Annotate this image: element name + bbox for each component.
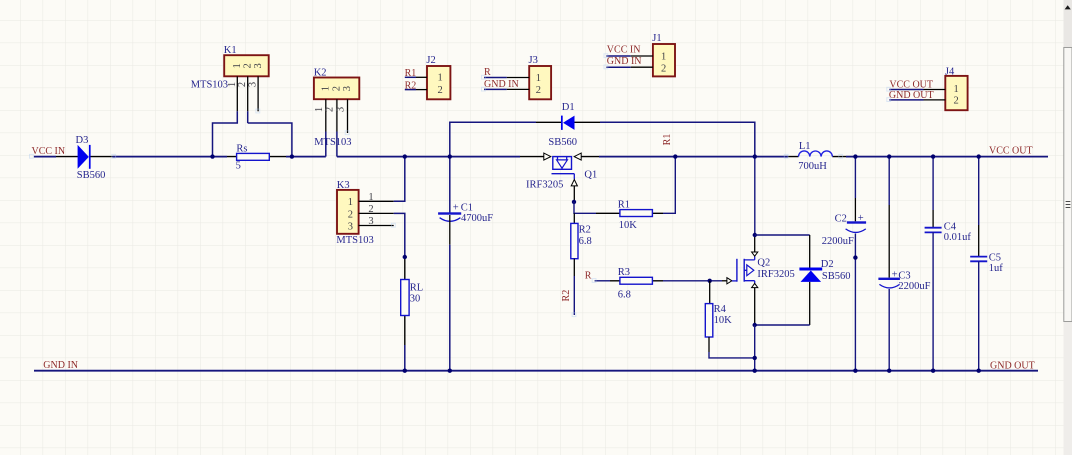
svg-text:1: 1: [348, 197, 353, 208]
svg-text:4700uF: 4700uF: [461, 213, 493, 224]
wire net VCC OUT stub (J4.1): [889, 89, 923, 91]
net label GND OUT (J4): [889, 90, 934, 101]
label C4: [944, 221, 957, 232]
J4 pin names: [954, 84, 959, 107]
svg-text:GND OUT: GND OUT: [889, 90, 934, 101]
label L1: [799, 141, 811, 152]
svg-text:R1: R1: [405, 68, 417, 79]
svg-text:C4: C4: [944, 221, 957, 232]
wire RL to GND rail: [404, 345, 406, 371]
svg-text:GND OUT: GND OUT: [990, 360, 1035, 371]
wire main VCC rail D3 to Rs: [113, 156, 228, 158]
K3 pin numbers: [368, 192, 373, 227]
svg-text:+: +: [453, 202, 459, 213]
J1 pin 1: [631, 55, 653, 57]
junction GND rail x889.2: [887, 369, 891, 373]
net label R (R3 input): [585, 270, 592, 281]
svg-text:10K: 10K: [619, 220, 638, 231]
svg-text:R4: R4: [714, 304, 727, 315]
svg-text:1: 1: [536, 73, 541, 84]
svg-text:1: 1: [227, 82, 238, 87]
value 1uf (C5): [989, 263, 1004, 274]
wire net R2 stub: [573, 276, 575, 315]
value 10K (R4): [714, 315, 733, 326]
junction GND rail x855.4: [853, 369, 857, 373]
transistor Q2 gate pin: [722, 278, 732, 284]
svg-text:VCC IN: VCC IN: [32, 146, 66, 157]
label R4: [714, 304, 727, 315]
wire K1 pin2 to Rs right: [248, 111, 292, 156]
capacitor C1 top pin: [449, 157, 451, 213]
junction VCC rail x889.2: [887, 154, 891, 158]
transistor Q1 source pin: [574, 153, 599, 160]
wire K2 pin2 down to rail: [336, 132, 338, 157]
wire Q2 source to GND rail: [754, 325, 756, 371]
label K2: [314, 68, 327, 79]
svg-text:1: 1: [368, 192, 373, 203]
label +C1: [453, 202, 473, 213]
label J4: [945, 67, 955, 78]
label R2: [579, 225, 591, 236]
svg-text:J4: J4: [945, 67, 955, 78]
value 5 (Rs): [236, 161, 241, 172]
svg-text:K1: K1: [224, 45, 237, 56]
value MTS103 (K1): [191, 79, 228, 90]
K1 pin numbers (rotated): [227, 82, 259, 87]
net label GND IN (J1): [607, 56, 642, 67]
svg-text:VCC OUT: VCC OUT: [989, 145, 1033, 156]
svg-text:K3: K3: [337, 180, 350, 191]
resistor R4: [705, 304, 713, 337]
transistor Q1 drain pin: [520, 153, 551, 160]
J1 pin 2: [631, 66, 653, 68]
junction VCC rail x978.7: [977, 154, 981, 158]
label D3: [76, 135, 89, 146]
svg-text:J1: J1: [652, 33, 661, 44]
diode D3: [78, 145, 91, 169]
diode D1 pins: [536, 121, 600, 123]
diode D2 (pointing up, cathode top): [799, 268, 822, 282]
value 0.01uf (C4): [944, 232, 972, 243]
svg-text:1uf: 1uf: [989, 263, 1004, 274]
J3 pin 2: [507, 88, 530, 90]
capacitor C4 top pin: [932, 157, 934, 228]
wire R4 to Q2 source column: [709, 352, 755, 358]
value 6.8 (R3): [618, 290, 631, 301]
net label VCC IN: [32, 146, 66, 157]
junction VCC rail x212.5: [210, 154, 214, 158]
value SB560 (D3): [77, 170, 106, 181]
svg-text:10K: 10K: [714, 315, 733, 326]
svg-text:Q1: Q1: [584, 170, 597, 181]
junction C2 bottom: [853, 255, 857, 259]
junction GND rail x404.8: [403, 369, 407, 373]
J2 pin 1: [416, 76, 427, 78]
svg-text:K2: K2: [314, 68, 327, 79]
svg-text:2: 2: [438, 85, 443, 96]
connector J2 body: [427, 66, 450, 99]
svg-text:R1: R1: [662, 134, 673, 146]
value 10K (R1): [619, 220, 638, 231]
junction GND rail x449.8: [448, 369, 452, 373]
svg-text:R1: R1: [618, 199, 630, 210]
wire net VCC IN stub (J1.1): [606, 55, 630, 57]
wire net R2 stub (J2.2): [405, 89, 416, 91]
wire net R1 stub (J2.1): [405, 76, 416, 78]
label C2 +: [835, 213, 864, 224]
wire Q1 gate to R1/R2: [574, 202, 596, 213]
scrollbar up arrow: [1065, 5, 1071, 9]
svg-text:3: 3: [253, 63, 264, 68]
svg-text:2: 2: [243, 63, 254, 68]
svg-text:2: 2: [331, 86, 342, 91]
wire Q1 to L1 segment: [599, 156, 788, 158]
wire C3 to GND rail: [888, 289, 890, 371]
label K3: [337, 180, 350, 191]
inductor L1: [799, 151, 833, 157]
value 700uH (L1): [798, 161, 827, 172]
connector J3 body: [529, 66, 551, 99]
svg-text:RL: RL: [410, 283, 423, 294]
wire net R stub to R3: [595, 280, 610, 282]
label Q1: [584, 170, 597, 181]
J2 pin 2: [416, 89, 427, 91]
label D1: [562, 102, 575, 113]
diode D1 (pointing left): [561, 116, 575, 130]
junction RL top: [403, 255, 407, 259]
K2 pin 2: [336, 99, 338, 131]
resistor R2 bottom pin: [573, 259, 575, 276]
net label R (J3): [484, 67, 491, 78]
label R3: [618, 267, 630, 278]
svg-text:R2: R2: [561, 290, 572, 302]
wire D1 bypass riser right: [600, 122, 755, 156]
resistor R4 top pin: [709, 281, 711, 304]
svg-text:IRF3205: IRF3205: [757, 269, 794, 280]
J3 pin 1: [507, 77, 530, 79]
svg-text:+: +: [892, 269, 898, 280]
capacitor C1: [438, 212, 461, 221]
switch K3 body: [337, 190, 359, 234]
svg-text:C2: C2: [835, 214, 847, 225]
transistor Q2 body: [732, 256, 755, 283]
svg-text:3: 3: [348, 221, 353, 232]
wire Rs to K2: [286, 156, 326, 158]
K1 pin 3: [257, 76, 259, 111]
svg-text:1: 1: [954, 84, 959, 95]
svg-text:MTS103: MTS103: [191, 79, 228, 90]
junction VCC rail x404.8: [403, 154, 407, 158]
svg-text:MTS103: MTS103: [314, 137, 351, 148]
junction VCC rail x291.9: [290, 154, 294, 158]
resistor RL pins: [404, 257, 406, 345]
svg-text:GND IN: GND IN: [43, 360, 78, 371]
value 30 (RL): [410, 293, 421, 304]
label C5: [989, 252, 1001, 263]
K1 pin 1: [236, 76, 238, 111]
svg-text:SB560: SB560: [822, 271, 851, 282]
svg-text:GND IN: GND IN: [607, 56, 642, 67]
wire Q2 drain from VCC rail: [754, 157, 756, 235]
svg-text:1: 1: [438, 73, 443, 84]
capacitor C3: [878, 278, 900, 288]
relay K1 body: [224, 55, 269, 76]
svg-text:2: 2: [237, 82, 248, 87]
K3 pin 2: [359, 212, 394, 214]
wire end markers (editor hotspots): [30, 54, 891, 317]
value IRF3205 (Q2): [757, 269, 794, 280]
label Q2: [757, 258, 770, 269]
svg-text:MTS103: MTS103: [336, 235, 373, 246]
resistor R1 pins: [596, 212, 663, 214]
value SB560 (D2): [822, 271, 851, 282]
svg-text:L1: L1: [799, 141, 811, 152]
svg-text:2: 2: [368, 204, 373, 215]
svg-text:SB560: SB560: [548, 137, 577, 148]
wire D2 top branch: [755, 234, 810, 236]
resistor R1: [620, 210, 653, 217]
junction Q2 drain / D2: [753, 233, 757, 237]
svg-text:VCC OUT: VCC OUT: [889, 79, 933, 90]
label RL: [410, 283, 423, 294]
J3 pin names: [536, 73, 541, 96]
net label VCC OUT (J4): [889, 79, 933, 90]
wire C4 to GND rail: [932, 232, 934, 370]
wire D1 bypass riser left: [450, 122, 536, 156]
label K1: [224, 45, 237, 56]
wire C2 to GND rail: [854, 234, 856, 371]
label R1: [618, 199, 630, 210]
junction VCC rail x449.8: [448, 154, 452, 158]
junction GND rail x933.1: [931, 369, 935, 373]
svg-text:1: 1: [314, 107, 325, 112]
svg-text:1: 1: [321, 86, 332, 91]
K1 pin 2: [247, 76, 249, 111]
resistor Rs pins: [227, 156, 286, 158]
svg-text:D3: D3: [76, 135, 89, 146]
diode D2 bottom pin: [809, 282, 811, 325]
junction Q1 gate node: [572, 200, 576, 204]
wire VCC IN net (left segment): [34, 156, 56, 158]
svg-text:6.8: 6.8: [618, 290, 631, 301]
junction VCC rail x855.4: [853, 154, 857, 158]
svg-text:Q2: Q2: [757, 258, 770, 269]
wire GND rail: [34, 370, 1038, 372]
wire R1 to VCC rail: [663, 157, 675, 214]
svg-text:3: 3: [368, 216, 373, 227]
svg-text:+: +: [858, 213, 864, 224]
diode D2 top pin: [809, 235, 811, 268]
net label GND OUT: [990, 360, 1035, 371]
value 2200uF (C3): [898, 281, 930, 292]
junction GND rail x978.7: [977, 369, 981, 373]
svg-text:IRF3205: IRF3205: [526, 179, 563, 190]
net label GND IN: [43, 360, 78, 371]
wire net R stub (J3.1): [484, 77, 507, 79]
resistor R2 top pin: [573, 213, 575, 223]
svg-text:6.8: 6.8: [579, 236, 592, 247]
wire net GND IN stub (J1.2): [606, 66, 630, 68]
capacitor C5 top pin: [978, 157, 980, 257]
net label VCC OUT: [989, 145, 1033, 156]
resistor RL: [401, 280, 409, 316]
junction VCC rail x933.1: [931, 154, 935, 158]
junction VCC rail x754.8: [753, 154, 757, 158]
svg-text:D2: D2: [821, 259, 834, 270]
svg-text:1: 1: [232, 63, 243, 68]
diode D3 pins: [56, 156, 113, 158]
capacitor C2 top pin: [854, 157, 856, 222]
svg-text:J3: J3: [529, 55, 538, 66]
K2 pin 3: [347, 99, 349, 133]
value SB560 (D1): [548, 137, 577, 148]
svg-text:2: 2: [348, 209, 353, 220]
net label GND IN (J3): [484, 79, 519, 90]
wire C5 to GND rail: [978, 261, 980, 370]
svg-text:30: 30: [410, 293, 421, 304]
svg-text:Rs: Rs: [236, 143, 247, 154]
value MTS103 (K3): [336, 235, 373, 246]
svg-text:1: 1: [661, 52, 666, 63]
capacitor C2: [846, 221, 867, 232]
svg-text:SB560: SB560: [77, 170, 106, 181]
svg-text:5: 5: [236, 161, 241, 172]
K2 pin numbers (rotated): [314, 107, 347, 112]
label D2: [821, 259, 834, 270]
resistor R3 pins: [610, 280, 663, 282]
J4 pin 1: [924, 89, 946, 91]
wire net GND OUT stub (J4.2): [889, 99, 923, 101]
svg-text:2: 2: [954, 96, 959, 107]
resistor R2: [571, 223, 578, 258]
resistor R4 bottom pin: [708, 337, 710, 352]
switch K2 body: [314, 78, 359, 100]
svg-text:R2: R2: [405, 80, 417, 91]
svg-text:D1: D1: [562, 102, 575, 113]
inductor L1 pins: [788, 156, 846, 158]
K3 inside pin names: [348, 197, 353, 232]
transistor Q1 body: [552, 157, 575, 180]
svg-text:700uH: 700uH: [798, 161, 827, 172]
net label R1 (rotated, wire x675): [662, 134, 673, 146]
scrollbar track: [1064, 0, 1072, 455]
label Rs: [236, 143, 247, 154]
value MTS103 (K2): [314, 137, 351, 148]
connector J1 body: [653, 44, 675, 76]
svg-text:2: 2: [325, 107, 336, 112]
connector J4 body: [945, 76, 967, 110]
K2 inside pin names 1 2 3 (rotated): [321, 86, 354, 91]
net label R2 (J2): [405, 80, 417, 91]
svg-text:0.01uf: 0.01uf: [944, 232, 972, 243]
wire R3 to Q2 gate node: [663, 280, 722, 282]
net label R1 (J2): [405, 68, 417, 79]
svg-text:R: R: [585, 270, 592, 281]
scrollbar thumb: [1064, 48, 1072, 322]
value 2200uF (C2): [822, 236, 854, 247]
value 6.8 (R2): [579, 236, 592, 247]
wire K2 pin1 down to rail: [325, 132, 327, 157]
resistor Rs: [237, 153, 270, 160]
svg-text:R3: R3: [618, 267, 630, 278]
svg-text:2: 2: [661, 64, 666, 75]
svg-text:GND IN: GND IN: [484, 79, 519, 90]
label +C3: [892, 269, 911, 281]
junction R4/Q2 source: [753, 356, 757, 360]
label J1: [652, 33, 661, 44]
wire D2 bottom branch: [755, 324, 810, 326]
svg-text:3: 3: [248, 82, 259, 87]
wire L1 to VCC OUT: [846, 156, 1048, 158]
junction R3/R4/Q2 gate: [708, 279, 712, 283]
capacitor C4: [925, 228, 942, 233]
value IRF3205 (Q1): [526, 179, 563, 190]
wire K2 pin2 to Q1 segment: [337, 156, 520, 158]
K2 pin 1: [325, 99, 327, 131]
junction GND rail x754.7: [753, 369, 757, 373]
svg-text:C1: C1: [461, 202, 473, 213]
net label R2 (rotated): [561, 290, 572, 302]
capacitor C1 bottom pin: [449, 215, 451, 245]
svg-text:3: 3: [342, 86, 353, 91]
wire K1 pin1 to Rs left: [213, 111, 238, 156]
K3 pin 3: [359, 225, 394, 227]
J1 pin names: [661, 52, 666, 75]
svg-text:VCC IN: VCC IN: [607, 44, 641, 55]
value 4700uF (C1): [461, 213, 493, 224]
capacitor C5: [970, 257, 987, 262]
junction Q2 source / D2: [753, 323, 757, 327]
svg-text:C5: C5: [989, 252, 1001, 263]
svg-text:2: 2: [536, 85, 541, 96]
capacitor C3 top pin: [888, 157, 890, 278]
svg-text:2200uF: 2200uF: [822, 236, 854, 247]
svg-text:2200uF: 2200uF: [898, 281, 930, 292]
transistor Q2 source pin: [752, 283, 758, 325]
K1 inside pin names 1 2 3 (rotated): [232, 63, 264, 68]
wire net GND IN stub (J3.2): [484, 88, 507, 90]
wire K3 pin1 up to rail: [394, 157, 405, 202]
resistor R3: [620, 277, 653, 284]
transistor Q2 drain pin: [752, 235, 758, 256]
transistor Q1 gate pin: [571, 180, 577, 202]
J2 pin names: [438, 73, 443, 96]
svg-text:3: 3: [336, 107, 347, 112]
label J2: [426, 55, 435, 66]
net label VCC IN (J1): [607, 44, 641, 55]
svg-text:J2: J2: [426, 55, 435, 66]
svg-text:R2: R2: [579, 225, 591, 236]
label J3: [529, 55, 538, 66]
junction VCC rail x675.3: [673, 154, 677, 158]
K3 pin 1: [359, 200, 394, 202]
wire C1 to GND rail: [449, 245, 451, 371]
J4 pin 2: [924, 99, 946, 101]
wire K3 pin2 down to RL: [394, 213, 405, 257]
